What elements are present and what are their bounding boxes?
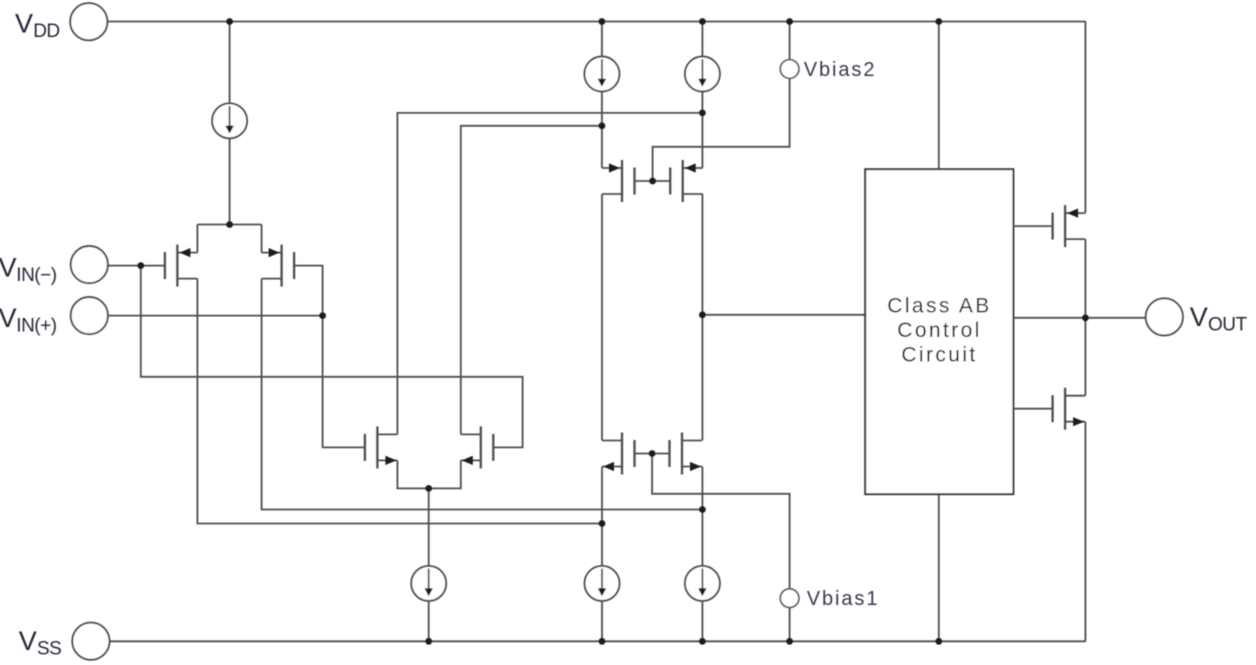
svg-text:DD: DD (33, 21, 59, 42)
svg-text:Class AB: Class AB (887, 294, 991, 317)
svg-text:Circuit: Circuit (901, 343, 977, 366)
svg-text:V: V (15, 8, 33, 38)
svg-text:Control: Control (897, 319, 982, 342)
svg-text:OUT: OUT (1208, 315, 1248, 336)
svg-text:Vbias2: Vbias2 (804, 59, 877, 81)
svg-text:IN(+): IN(+) (16, 316, 56, 337)
svg-text:V: V (0, 303, 17, 333)
svg-text:V: V (1190, 302, 1208, 332)
svg-text:V: V (19, 626, 37, 656)
svg-text:Vbias1: Vbias1 (807, 588, 880, 610)
svg-text:V: V (0, 253, 17, 283)
svg-text:IN(−): IN(−) (16, 265, 56, 286)
svg-text:SS: SS (37, 638, 61, 659)
